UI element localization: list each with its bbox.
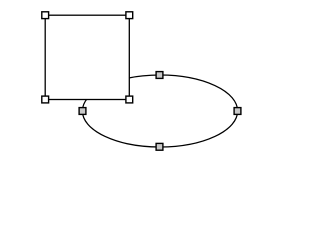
rectangle handle top-right [126, 12, 133, 19]
ellipse handle top [156, 72, 163, 79]
rectangle shape [45, 15, 129, 99]
rectangle handle bottom-right [126, 96, 133, 103]
ellipse handle right [234, 108, 241, 115]
rectangle handle bottom-left [42, 96, 49, 103]
ellipse handle bottom [156, 143, 163, 150]
ellipse handle left [79, 108, 86, 115]
ellipse shape [82, 75, 237, 147]
rectangle handle top-left [42, 12, 49, 19]
